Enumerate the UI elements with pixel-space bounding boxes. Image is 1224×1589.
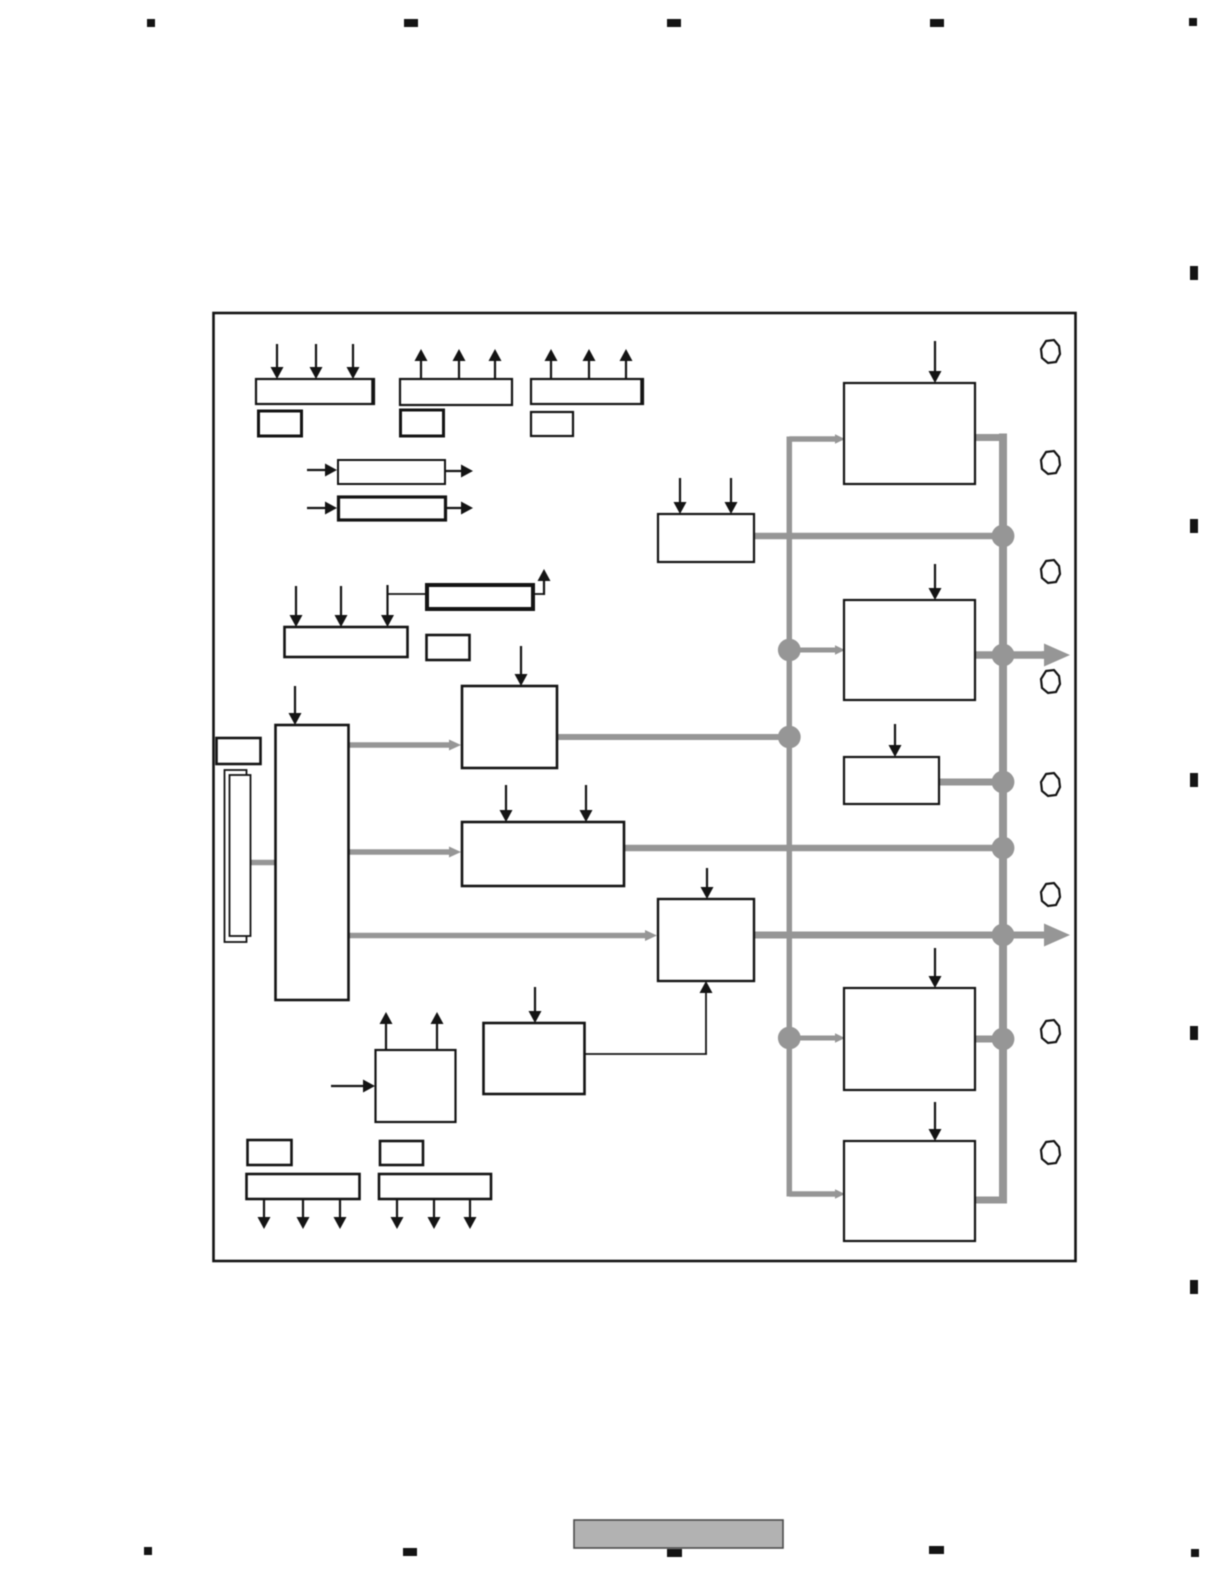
registration mark bottom 4 bbox=[929, 1546, 944, 1554]
bus left bottom arm arrow bbox=[789, 1189, 845, 1199]
registration mark top 4 bbox=[930, 19, 944, 27]
registration mark bottom 3 bbox=[667, 1549, 682, 1557]
arrow down out of box F2a #3 bbox=[334, 1199, 347, 1229]
mounting hole 8 bbox=[1041, 1141, 1060, 1164]
bus left arm to box R4 bbox=[789, 1033, 845, 1043]
junction dot H bbox=[992, 924, 1015, 947]
registration mark top 5 bbox=[1189, 18, 1197, 26]
box I bbox=[376, 1050, 456, 1122]
box E2a bbox=[248, 1140, 292, 1165]
bus exit arrow low bbox=[1044, 924, 1070, 947]
box R3 bbox=[844, 757, 939, 804]
wire box E up-arrow L-bend bbox=[533, 569, 551, 595]
box RM bbox=[658, 514, 754, 562]
arrow down into box H bbox=[515, 646, 528, 686]
registration mark right 2 bbox=[1190, 519, 1198, 533]
box B1 bbox=[400, 379, 512, 405]
box RT1 bbox=[844, 383, 975, 484]
arrow down out of box F2b #2 bbox=[428, 1199, 441, 1229]
box F bbox=[285, 627, 408, 657]
box F2a bbox=[247, 1174, 360, 1199]
box B2 bbox=[401, 410, 444, 436]
junction dot I bbox=[992, 1028, 1015, 1051]
center box bbox=[658, 899, 754, 981]
mounting hole 3 bbox=[1041, 560, 1060, 583]
box D2 bbox=[339, 497, 446, 520]
box H2 bbox=[484, 1023, 585, 1094]
wide box bbox=[462, 822, 624, 886]
arrow down into box A1 #3 bbox=[347, 344, 360, 379]
arrow up from box C1 #3 bbox=[620, 349, 633, 379]
arrow down into box F #2 bbox=[335, 586, 348, 627]
wire box RM to right bus bbox=[752, 533, 1003, 540]
registration mark right 5 bbox=[1190, 1280, 1198, 1294]
small box left bbox=[217, 738, 261, 764]
mounting hole 6 bbox=[1041, 883, 1060, 906]
arrow down out of box F2a #2 bbox=[297, 1199, 310, 1229]
box D1 bbox=[338, 460, 445, 484]
arrow up from box B1 #2 bbox=[453, 349, 466, 379]
box E2b bbox=[380, 1141, 423, 1165]
registration mark top 3 bbox=[667, 19, 681, 27]
arrow down into box RM #1 bbox=[674, 478, 687, 514]
arrow down into box R3 bbox=[889, 724, 902, 757]
wire box H2 to center box bottom bbox=[584, 981, 713, 1054]
box C1 bbox=[531, 379, 643, 404]
mounting hole 5 bbox=[1041, 773, 1060, 796]
mounting hole 1 bbox=[1041, 340, 1060, 363]
arrow up from box C1 #1 bbox=[545, 349, 558, 379]
arrow out of box D2 bbox=[445, 502, 473, 515]
arrow up from box I #2 bbox=[431, 1012, 444, 1050]
arrow down into box H2 bbox=[529, 987, 542, 1023]
bus left arm to box R2 bbox=[789, 645, 845, 655]
arrow down into box R2 bbox=[929, 564, 942, 600]
arrow up from box I #1 bbox=[380, 1012, 393, 1050]
wire branch to box E bbox=[388, 593, 428, 595]
wire wide box to right bus bbox=[622, 845, 1003, 852]
bus right vertical bbox=[999, 434, 1007, 1201]
box C2 bbox=[531, 412, 573, 436]
junction dot C bbox=[778, 1027, 801, 1050]
wire box H to left bus bbox=[555, 734, 789, 740]
arrow down into box F #1 bbox=[290, 586, 303, 627]
wire tall box to wide box bbox=[348, 847, 461, 858]
arrow down into box F #3 bbox=[381, 585, 394, 627]
diagram frame bbox=[214, 313, 1076, 1261]
registration mark right 4 bbox=[1190, 1026, 1198, 1040]
arrow up from box B1 #3 bbox=[489, 349, 502, 379]
box G bbox=[427, 635, 470, 660]
arrow out of box D1 bbox=[445, 465, 473, 478]
junction dot B bbox=[778, 726, 801, 749]
junction dot E bbox=[992, 644, 1015, 667]
junction dot D bbox=[992, 525, 1015, 548]
wire right-bus top link bbox=[971, 434, 1007, 441]
junction dot G bbox=[992, 837, 1015, 860]
registration mark right 1 bbox=[1190, 266, 1198, 280]
box F2b bbox=[379, 1174, 491, 1199]
registration mark bottom 1 bbox=[144, 1547, 152, 1555]
arrow down out of box F2b #1 bbox=[391, 1199, 404, 1229]
bus left vertical bbox=[787, 437, 793, 1197]
arrow down out of box F2a #1 bbox=[258, 1199, 271, 1229]
wire right bus bottom into R5 bbox=[973, 1197, 1007, 1204]
connector inner bbox=[230, 775, 251, 936]
arrow up from box B1 #1 bbox=[415, 349, 428, 379]
arrow down into box RM #2 bbox=[725, 478, 738, 514]
arrow into box I bbox=[331, 1080, 375, 1093]
bus exit arrow mid bbox=[973, 644, 1070, 667]
arrow down into box A1 #2 bbox=[310, 344, 323, 379]
registration mark bottom 5 bbox=[1191, 1549, 1199, 1557]
box R5 bbox=[844, 1141, 975, 1241]
arrow into box D1 bbox=[307, 464, 337, 477]
arrow up from box C1 #2 bbox=[583, 349, 596, 379]
registration mark top 2 bbox=[404, 19, 418, 27]
mounting hole 7 bbox=[1041, 1020, 1060, 1043]
arrow down into box R5 bbox=[929, 1102, 942, 1141]
arrow down into tall box bbox=[289, 686, 302, 725]
wire tall box to box H bbox=[348, 740, 461, 751]
box E bbox=[427, 585, 533, 609]
registration mark top 1 bbox=[147, 19, 155, 27]
mounting hole 2 bbox=[1041, 451, 1060, 474]
arrow down into wide box #2 bbox=[580, 785, 593, 822]
junction dot A bbox=[778, 639, 801, 662]
wire center box to right bus bbox=[752, 932, 1003, 939]
box R2 bbox=[844, 600, 975, 700]
footer label box bbox=[574, 1520, 783, 1548]
arrow down into wide box #1 bbox=[500, 785, 513, 822]
box C1 right edge bbox=[640, 378, 644, 405]
arrow down out of box F2b #3 bbox=[464, 1199, 477, 1229]
wire box R3 to right bus bbox=[937, 779, 1003, 786]
bus left top arm arrow bbox=[789, 434, 845, 444]
registration mark bottom 2 bbox=[403, 1548, 417, 1556]
arrow down into box A1 #1 bbox=[271, 344, 284, 379]
box H bbox=[462, 686, 557, 768]
arrow into box D2 bbox=[307, 502, 337, 515]
box R4 bbox=[844, 988, 975, 1090]
wire box R4 to right bus bbox=[973, 1036, 1003, 1043]
arrow down into center box bbox=[701, 868, 714, 899]
box A1 right edge bbox=[371, 378, 375, 405]
registration mark right 3 bbox=[1190, 773, 1198, 787]
wire connector stub bbox=[249, 860, 276, 866]
junction dot F bbox=[992, 771, 1015, 794]
arrow down into box RT1 bbox=[929, 341, 942, 383]
tall box bbox=[276, 725, 349, 1000]
arrow down into box R4 bbox=[929, 948, 942, 988]
wire exit low shaft bbox=[1003, 932, 1045, 939]
wire tall box to center box bbox=[348, 930, 657, 941]
box A1 bbox=[256, 379, 374, 404]
connector outer bbox=[225, 770, 247, 942]
mounting hole 4 bbox=[1041, 670, 1060, 693]
box A2 bbox=[259, 411, 302, 436]
